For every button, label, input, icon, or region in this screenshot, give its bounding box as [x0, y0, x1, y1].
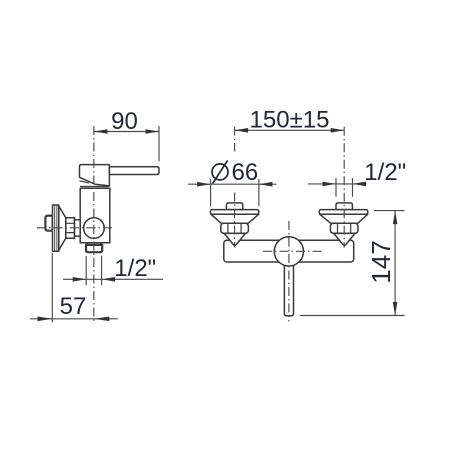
left view valve circle: [84, 218, 105, 239]
left view collar between nut and body: [75, 220, 81, 236]
arrow 150 right: [331, 128, 345, 133]
diameter symbol: [212, 160, 228, 183]
dim 147 top extension line: [374, 210, 405, 212]
arrow half-inch right pointing left: [102, 277, 116, 282]
right view left unit centerline upper segment: [234, 127, 236, 152]
right view right unit cap: [336, 203, 352, 210]
left view cap band under head: [80, 181, 89, 183]
left view wall stub: [45, 216, 52, 231]
dim 147 line: [394, 211, 396, 316]
right view left unit flange plate: [210, 210, 258, 215]
dim diam66 extension lines: [211, 179, 259, 206]
left view handle head: [80, 165, 110, 186]
right view lever handle: [284, 258, 293, 316]
right view right unit cone: [320, 214, 368, 223]
right view left unit hex nut: [221, 223, 249, 233]
right view middle vertical centerline: [288, 221, 290, 322]
arrow half-inch left pointing right: [73, 277, 87, 282]
arrow 150 left: [235, 128, 249, 133]
arrow 90 left: [94, 129, 108, 134]
left view wall flange plate: [53, 205, 59, 251]
svg-text:90: 90: [111, 108, 138, 135]
arrow 57 left pointing right: [38, 317, 53, 322]
left view outlet nut: [86, 245, 102, 252]
dim 57 line: [30, 318, 118, 320]
dim 150 line: [235, 129, 345, 131]
dim 90 line: [94, 131, 159, 133]
left view body: [80, 188, 110, 243]
arrow 147 top pointing up: [393, 211, 398, 225]
right view left unit V cone: [224, 233, 245, 245]
arrow 90 right: [146, 129, 160, 134]
left view flange plate inner lines: [55, 205, 57, 251]
left view outlet neck: [87, 243, 102, 245]
right view left unit cap: [226, 203, 242, 210]
dim diam66 line: [188, 183, 277, 185]
right view right unit nut facets: [338, 223, 351, 233]
arrow half-inch R left pointing right: [323, 182, 337, 187]
arrow 147 bottom pointing down: [393, 302, 398, 316]
dim 57 left extension line: [51, 253, 53, 323]
left view horizontal centerline: [37, 227, 115, 229]
right view right unit V cone: [334, 233, 355, 245]
right view right unit hex nut: [330, 223, 358, 233]
left view vertical centerline: [93, 126, 95, 322]
dim 147 bottom extension line: [300, 315, 405, 317]
svg-text:1/2": 1/2": [364, 159, 406, 186]
left view lever bar: [109, 167, 159, 175]
arrow 57 right pointing left: [94, 317, 109, 322]
right view horizontal centerline: [263, 250, 324, 252]
right view left unit nut facets: [228, 223, 241, 233]
dim half-inch left line: [63, 278, 163, 280]
left view nut facet lines: [66, 223, 75, 232]
svg-text:150±15: 150±15: [250, 106, 330, 133]
right view body bar: [224, 240, 354, 262]
arrow diam66 left pointing right: [197, 182, 211, 187]
svg-text:66: 66: [232, 159, 259, 186]
dim half-inch right extension lines: [336, 178, 353, 197]
left view cone from plate: [59, 206, 66, 250]
dim 90 right extension line: [158, 126, 160, 161]
svg-text:147: 147: [366, 240, 396, 283]
arrow diam66 right pointing left: [259, 182, 273, 187]
svg-text:1/2": 1/2": [114, 255, 156, 282]
left view hex nut: [66, 218, 75, 239]
right view left unit cone: [211, 214, 259, 223]
right view left unit centerline lower segment: [234, 193, 236, 248]
right view right unit centerline: [343, 127, 345, 248]
svg-text:57: 57: [60, 293, 87, 320]
dim half-inch right line: [308, 183, 367, 185]
arrow half-inch R right pointing left: [353, 182, 367, 187]
right view cartridge circle: [274, 237, 303, 266]
right view right unit flange plate: [319, 210, 368, 215]
dim half-inch left extension lines: [86, 256, 101, 285]
